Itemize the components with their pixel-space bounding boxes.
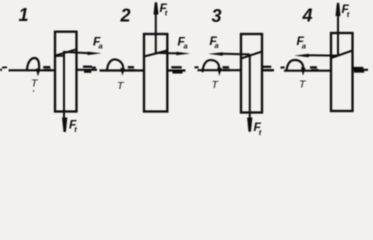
shaft right segment panel 4: [353, 69, 369, 71]
shaft break dashes mid panel 4: [310, 66, 317, 68]
torque arc T panel 2: [107, 59, 123, 70]
force line Ft panel 3 (down): [249, 55, 251, 122]
force line Fa panel 2 (right): [156, 52, 178, 55]
arrowhead Ft panel 3: [247, 118, 252, 132]
shaft break dashes right panel 2: [171, 66, 181, 68]
svg-text:a: a: [99, 42, 103, 51]
scan speck: [33, 90, 35, 92]
arrowhead Ft panel 4: [336, 3, 341, 16]
force line Ft panel 2 (up): [155, 12, 157, 53]
torque arrowhead panel 4: [301, 67, 306, 76]
shaft left segment panel 3: [198, 69, 242, 71]
arrowhead Fa panel 3: [208, 52, 223, 56]
torque arc T panel 4: [287, 60, 304, 71]
tooth helix diagonal panel 4: [331, 51, 353, 59]
svg-text:a: a: [184, 41, 188, 50]
torque arc T panel 1: [27, 58, 39, 70]
gear body rectangle panel 3: [241, 34, 262, 113]
shaft right segment panel 2: [167, 69, 185, 71]
shaft break dashes right panel 3: [263, 66, 272, 68]
svg-text:a: a: [302, 41, 306, 50]
shaft break dashes mid panel 2: [128, 66, 134, 68]
force line Fa panel 3 (left): [222, 53, 250, 56]
shaft break dashes right panel 1: [83, 66, 92, 68]
arrowhead Ft panel 1: [62, 118, 67, 133]
shaft right segment panel 1: [77, 69, 98, 71]
svg-text:3: 3: [212, 6, 222, 26]
force line Ft panel 4 (up): [337, 14, 339, 56]
arrowhead Fa panel 2: [176, 52, 190, 56]
shaft break dashes mid panel 3: [223, 66, 230, 68]
shaft left segment panel 1: [9, 69, 56, 71]
arrowhead Fa panel 4: [294, 54, 309, 58]
gear body rectangle panel 2: [144, 34, 167, 112]
svg-text:4: 4: [302, 5, 313, 25]
shaft left segment panel 2: [100, 69, 145, 71]
shaft left segment panel 4: [284, 70, 331, 72]
gear body rectangle panel 1: [55, 32, 77, 112]
force line Ft panel 1 (down): [63, 53, 65, 122]
shaft break dash left end panel 2: [92, 67, 96, 69]
arrowhead Fa panel 1: [88, 52, 102, 56]
torque arrowhead panel 1: [36, 68, 41, 76]
arrowhead Ft panel 2: [154, 2, 159, 14]
shaft edge nub panel 1: [0, 69, 2, 71]
shaft break dash left end panel 1: [2, 66, 7, 68]
torque arrowhead panel 3: [217, 67, 222, 76]
tooth helix diagonal panel 3: [241, 52, 262, 59]
torque arrowhead panel 2: [120, 68, 125, 76]
pitch line stub panel 1: [55, 55, 64, 57]
shaft break dashes right panel 4: [353, 67, 364, 69]
shaft right segment panel 3: [262, 69, 274, 71]
svg-text:1: 1: [19, 5, 29, 25]
tooth helix diagonal panel 1: [55, 49, 77, 55]
force line Fa panel 1 (right): [63, 52, 90, 53]
shaft break dash left end panel 4: [281, 66, 285, 68]
tooth helix diagonal panel 2: [144, 51, 167, 57]
gear body rectangle panel 4: [331, 33, 353, 111]
force line Fa panel 4 (left): [308, 54, 338, 56]
svg-text:2: 2: [120, 5, 131, 25]
torque arc T panel 3: [203, 60, 220, 72]
shaft break dashes mid panel 1: [43, 66, 50, 68]
svg-text:a: a: [215, 41, 219, 50]
shaft break dash left end panel 3: [195, 66, 199, 68]
